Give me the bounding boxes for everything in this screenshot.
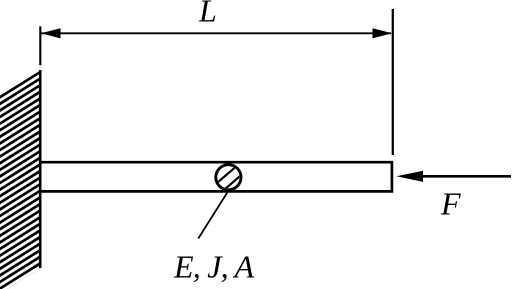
svg-text:F: F [440,186,461,222]
svg-text:L: L [198,0,217,29]
svg-text:E, J, A: E, J, A [173,249,254,285]
